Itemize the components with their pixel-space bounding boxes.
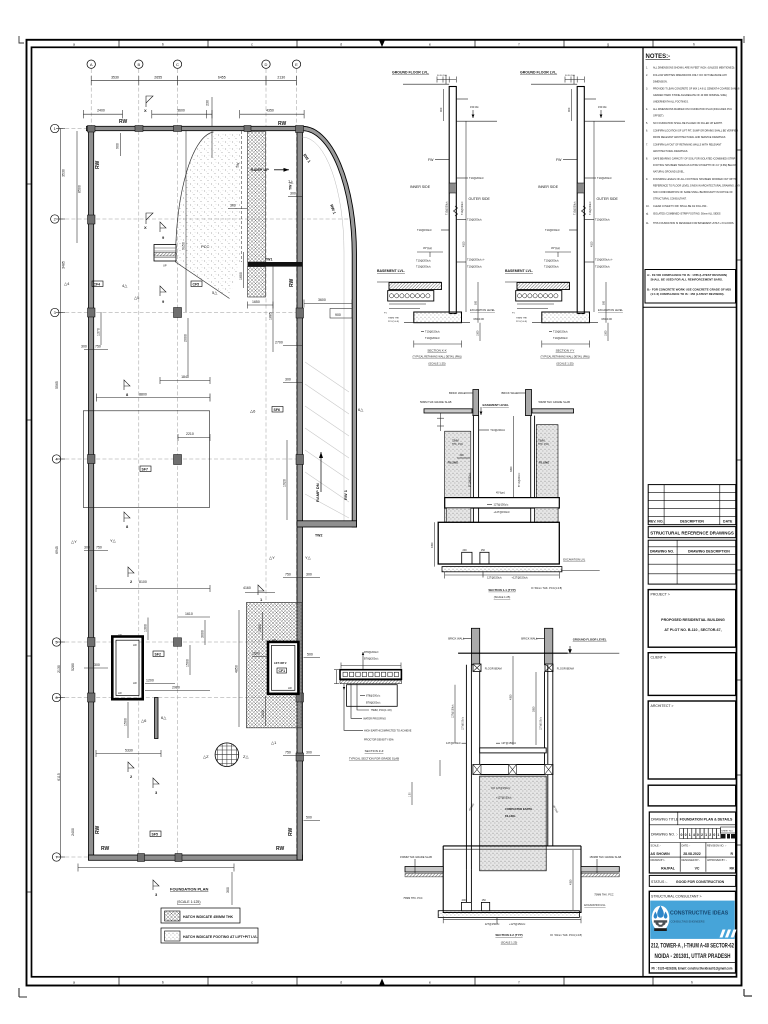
svg-text:4: 4 xyxy=(693,833,695,837)
svg-text:=8040.00: =8040.00 xyxy=(473,317,484,321)
svg-text:2.: 2. xyxy=(646,74,648,77)
wall continues to footing xyxy=(466,869,471,902)
svg-text:b: b xyxy=(162,43,164,47)
svg-text:SF7: SF7 xyxy=(142,467,148,471)
dim 1920 xyxy=(286,440,288,520)
svg-text:GROUND FLOOR LEVEL: GROUND FLOOR LEVEL xyxy=(573,638,607,642)
svg-text:STRUCTURAL CONSULTANT.: STRUCTURAL CONSULTANT. xyxy=(653,198,687,201)
dim 1370 xyxy=(100,312,102,345)
svg-text:2210: 2210 xyxy=(186,432,194,436)
svg-text:PROVIDE IT LEAN CONCRETE OF MI: PROVIDE IT LEAN CONCRETE OF MIX 1:4:8 (1… xyxy=(653,88,740,91)
svg-text:RAJPAL: RAJPAL xyxy=(661,867,676,871)
svg-text:DATE: DATE xyxy=(723,520,733,524)
revision table xyxy=(648,485,736,525)
svg-text:300: 300 xyxy=(94,663,100,667)
svg-text:1: 1 xyxy=(717,833,719,837)
svg-text:75MM: 75MM xyxy=(538,439,545,442)
bottom wall xyxy=(89,855,303,860)
svg-text:BASEMENT LVL.: BASEMENT LVL. xyxy=(377,269,405,273)
svg-text:3530: 3530 xyxy=(62,169,66,177)
svg-text:(SCALE 1:25): (SCALE 1:25) xyxy=(494,595,511,599)
svg-text:PCC(1:4:8): PCC(1:4:8) xyxy=(388,321,399,323)
retaining wall stem xyxy=(449,87,456,314)
svg-text:FROM RELEVANT ARCHITECTURAL AN: FROM RELEVANT ARCHITECTURAL AND SERVICE … xyxy=(653,136,726,139)
SF2 box xyxy=(153,651,164,657)
svg-text:FOUNDATION PLAN & DETAILS: FOUNDATION PLAN & DETAILS xyxy=(680,817,733,821)
svg-text:DESIGNED BY:-: DESIGNED BY:- xyxy=(682,859,701,862)
svg-text:50MM THK GRADE SLAB: 50MM THK GRADE SLAB xyxy=(420,400,452,404)
svg-text:△Y: △Y xyxy=(71,539,77,544)
svg-text:a: a xyxy=(73,981,75,985)
svg-text:150: 150 xyxy=(482,899,487,902)
svg-text:10.: 10. xyxy=(646,205,650,208)
svg-text:SECTION 2-2 (TYP): SECTION 2-2 (TYP) xyxy=(495,933,522,937)
svg-text:DRAWN BY:-: DRAWN BY:- xyxy=(651,859,666,862)
svg-text:CLEAR COVER TO R/F SHALL BE AS: CLEAR COVER TO R/F SHALL BE AS FOLLOW:- xyxy=(653,205,708,208)
slab rebar bar xyxy=(388,291,434,301)
svg-text:1200: 1200 xyxy=(261,710,265,718)
svg-text:LW: LW xyxy=(118,633,122,637)
svg-text:PROPOSED RESIDENTIAL BUILDING: PROPOSED RESIDENTIAL BUILDING xyxy=(661,618,725,622)
svg-text:B:- FOR CONCRETE WORK USE CONC: B:- FOR CONCRETE WORK USE CONCRETE GRADE… xyxy=(647,287,732,291)
svg-text:DRAWING NO.: DRAWING NO. xyxy=(650,550,674,554)
svg-text:HIGH EARTH/COMPACTED TO ACHIEV: HIGH EARTH/COMPACTED TO ACHIEVE xyxy=(364,729,412,732)
svg-text:6455: 6455 xyxy=(218,76,226,80)
dim 8500 xyxy=(76,131,78,243)
svg-text:7.: 7. xyxy=(646,144,648,147)
svg-text:RW: RW xyxy=(276,846,285,852)
svg-text:RW: RW xyxy=(288,827,294,836)
architect box xyxy=(648,701,736,779)
svg-text:6945: 6945 xyxy=(55,546,59,554)
svg-text:12T@150c/c: 12T@150c/c xyxy=(463,716,465,730)
svg-text:LW: LW xyxy=(133,643,137,647)
svg-text:6△: 6△ xyxy=(358,407,364,412)
top small dims left xyxy=(437,413,444,431)
grid circles top A-E xyxy=(87,60,301,68)
svg-text:RW: RW xyxy=(95,825,101,834)
svg-text:+12T@150c/c: +12T@150c/c xyxy=(496,797,512,800)
svg-text:3050: 3050 xyxy=(510,466,513,472)
svg-text:ALL DIMENSIONS MARKED ON FOUND: ALL DIMENSIONS MARKED ON FOUNDATION PLAN… xyxy=(653,108,732,111)
lift shaft box xyxy=(268,642,298,694)
svg-text:75MM THK: 75MM THK xyxy=(388,318,400,320)
svg-text:5280: 5280 xyxy=(71,663,75,671)
left small dims xyxy=(412,760,440,805)
CF4 CF5 boxes xyxy=(92,281,103,287)
svg-text:REFERENCE TO FLOOR LEVEL GIVEN: REFERENCE TO FLOOR LEVEL GIVEN IN ARCHIT… xyxy=(653,185,741,188)
wall columns xyxy=(88,126,304,862)
svg-text:1370: 1370 xyxy=(97,328,101,336)
svg-text:3.: 3. xyxy=(646,88,648,91)
svg-text:EXCAVATION LVL: EXCAVATION LVL xyxy=(584,903,606,907)
svg-text:28.08.2022: 28.08.2022 xyxy=(683,852,701,856)
svg-text:CONFIRM LAYOUT OF RETAINING WA: CONFIRM LAYOUT OF RETAINING WALLS WITH R… xyxy=(653,144,722,147)
joint block xyxy=(449,183,456,193)
svg-text:7△: 7△ xyxy=(288,179,294,184)
pit outline xyxy=(438,522,559,564)
center vertical dim xyxy=(535,672,537,745)
centering triangle top xyxy=(379,40,385,47)
dim 900 xyxy=(443,89,445,121)
floor beams xyxy=(473,664,481,672)
svg-text:150: 150 xyxy=(481,549,486,552)
svg-text:UP: UP xyxy=(163,264,167,268)
right vertical dim xyxy=(572,850,574,910)
svg-text:STRUCTURAL REFERENCE DRAWINGS: STRUCTURAL REFERENCE DRAWINGS xyxy=(650,531,734,536)
logo splash drops xyxy=(657,906,664,918)
corner mark top-left xyxy=(19,36,24,43)
svg-text:SF6: SF6 xyxy=(274,408,280,412)
svg-text:2000: 2000 xyxy=(184,334,188,342)
legend row 2 xyxy=(161,928,258,943)
logo ellipse xyxy=(652,906,670,931)
svg-text:TW1: TW1 xyxy=(265,258,272,262)
svg-text:300: 300 xyxy=(460,454,465,457)
svg-text:3600: 3600 xyxy=(318,298,326,302)
svg-text:900: 900 xyxy=(116,143,120,149)
svg-text:NO FOUNDATION SHALL BE PLACED: NO FOUNDATION SHALL BE PLACED ON FILLED … xyxy=(653,122,723,125)
left wall xyxy=(89,126,94,860)
right wall E-line xyxy=(297,126,303,860)
svg-text:T10@200c/c: T10@200c/c xyxy=(490,428,505,432)
svg-text:ARCHITECT >: ARCHITECT > xyxy=(651,704,674,708)
bottom stipple band xyxy=(438,911,579,918)
logo base bar xyxy=(654,928,667,931)
svg-text:1.: 1. xyxy=(646,67,648,70)
project box xyxy=(648,590,736,648)
flag 8 xyxy=(124,380,130,390)
svg-text:RAMP DN: RAMP DN xyxy=(315,483,320,502)
svg-text:(1:1:2) COMPLIANCE TO IS : 456: (1:1:2) COMPLIANCE TO IS : 456 (LATEST R… xyxy=(651,292,725,296)
svg-text:RW 1: RW 1 xyxy=(343,489,348,500)
svg-text:A: A xyxy=(90,62,93,67)
svg-text:T10@200c/c: T10@200c/c xyxy=(467,265,482,269)
svg-text:5330: 5330 xyxy=(125,748,133,752)
svg-text:h: h xyxy=(693,43,695,47)
compacted earth stipple xyxy=(480,776,547,871)
svg-text:150MM THK GRADE SLAB: 150MM THK GRADE SLAB xyxy=(589,855,621,859)
svg-text:GRADED HARD STONE AGGREGATE OF: GRADED HARD STONE AGGREGATE OF 40 MM NOM… xyxy=(653,94,727,97)
TW dashed line xyxy=(241,131,243,262)
svg-text:300: 300 xyxy=(290,192,296,196)
svg-text:1610: 1610 xyxy=(185,612,193,616)
grade slab detail xyxy=(334,651,412,761)
svg-text:g: g xyxy=(607,43,609,47)
svg-text:1500: 1500 xyxy=(477,330,480,336)
dim 3600 ramp xyxy=(304,300,352,308)
white slashes xyxy=(720,930,737,938)
TW1 thick bar xyxy=(248,262,303,267)
svg-text:SECTION 1-1 (TYP): SECTION 1-1 (TYP) xyxy=(488,588,515,592)
right wall below xyxy=(531,416,535,523)
svg-text:a).: a). xyxy=(646,213,649,216)
svg-text:1300: 1300 xyxy=(258,624,262,632)
right ground lines xyxy=(456,98,468,100)
svg-text:A:- FE 500 COMPLIANCE TO IS :: A:- FE 500 COMPLIANCE TO IS : 1786 (LATE… xyxy=(647,273,727,277)
svg-text:300: 300 xyxy=(226,887,230,893)
svg-text:FLOOR BEAM: FLOOR BEAM xyxy=(485,667,502,671)
svg-text:0: 0 xyxy=(713,833,715,837)
drawing description table xyxy=(648,540,736,584)
svg-text:1300: 1300 xyxy=(144,624,148,632)
flags 9 xyxy=(160,222,166,232)
svg-text:FOLLOW WRITTEN DIMENSIONS ONLY: FOLLOW WRITTEN DIMENSIONS ONLY. DO NOT M… xyxy=(653,74,727,77)
svg-text:REVISION NO. :-: REVISION NO. :- xyxy=(707,844,726,847)
svg-text:TYPICAL SECTION FOR GRADE SLAB: TYPICAL SECTION FOR GRADE SLAB xyxy=(349,757,399,761)
svg-text:150MM THK GRADE SLAB: 150MM THK GRADE SLAB xyxy=(400,855,432,859)
svg-text:50mm THK. PCC(1:4:8): 50mm THK. PCC(1:4:8) xyxy=(535,586,563,590)
svg-text:NOIDA - 201301, UTTAR PRADESH: NOIDA - 201301, UTTAR PRADESH xyxy=(655,953,731,960)
svg-text:6.: 6. xyxy=(646,130,648,133)
svg-text:CLIENT >: CLIENT > xyxy=(651,656,666,660)
bottom dim xyxy=(445,572,560,579)
ramp outer curved wall xyxy=(303,126,357,527)
svg-text:APPROVED BY :-: APPROVED BY :- xyxy=(707,859,727,862)
left wall pair xyxy=(466,665,479,869)
svg-text:12T@150c/c: 12T@150c/c xyxy=(541,716,543,730)
svg-text:CF5: CF5 xyxy=(193,282,200,286)
FOUNDATION PLAN group xyxy=(51,60,357,862)
beam band xyxy=(480,748,547,753)
svg-text:2: 2 xyxy=(709,833,711,837)
right wall pair xyxy=(545,665,553,846)
svg-text:1650: 1650 xyxy=(252,300,260,304)
svg-text:f: f xyxy=(519,43,520,47)
right grade slab band xyxy=(532,409,574,413)
svg-text:INNER SIDE: INNER SIDE xyxy=(410,185,431,189)
svg-text:8T10@200c/c: 8T10@200c/c xyxy=(470,472,472,487)
svg-text:X: X xyxy=(144,108,147,113)
grid circles left 1-7 xyxy=(51,124,61,861)
dim 2210 xyxy=(178,434,210,441)
dim 9150 vertical xyxy=(185,131,187,312)
svg-text:PROJECT >: PROJECT > xyxy=(651,592,670,596)
plan lower details xyxy=(78,603,320,944)
svg-text:GROUND FLOOR LVL.: GROUND FLOOR LVL. xyxy=(392,71,429,75)
top mini dims 50 50 100 xyxy=(437,77,456,83)
svg-text:TW2: TW2 xyxy=(315,534,322,538)
svg-text:T10@200c/c: T10@200c/c xyxy=(446,201,449,215)
dim 300 pcc xyxy=(228,208,248,210)
svg-text:EXCAVATION LVL: EXCAVATION LVL xyxy=(563,558,586,562)
svg-text:5△: 5△ xyxy=(212,290,218,295)
svg-text:RW: RW xyxy=(95,160,101,169)
svg-text:f: f xyxy=(519,981,520,985)
PCC stipple region xyxy=(175,132,241,298)
ramp bottom wall xyxy=(297,521,357,527)
svg-text:c: c xyxy=(251,43,253,47)
svg-text:RW: RW xyxy=(289,278,295,287)
svg-text:45°(typ): 45°(typ) xyxy=(423,246,432,250)
svg-text:75MM: 75MM xyxy=(452,439,459,442)
svg-text:1500: 1500 xyxy=(252,651,260,655)
svg-text:UNDERNEATH ALL FOOTINGS.: UNDERNEATH ALL FOOTINGS. xyxy=(653,101,689,104)
svg-text:750: 750 xyxy=(96,546,102,550)
svg-text:ALL DIMENSIONS SHOWN, ARE IN F: ALL DIMENSIONS SHOWN, ARE IN FEET INCH. … xyxy=(653,67,735,70)
svg-text:△6: △6 xyxy=(141,718,147,723)
svg-text:BASEMENT LEVEL: BASEMENT LEVEL xyxy=(483,403,510,407)
svg-text:12T@150c/c: 12T@150c/c xyxy=(485,922,500,926)
svg-text:4.: 4. xyxy=(646,108,648,111)
svg-text:RK: RK xyxy=(729,867,735,871)
big room rect xyxy=(83,394,210,508)
dims around lift xyxy=(239,610,320,727)
svg-text:300: 300 xyxy=(306,573,312,577)
right brick wall xyxy=(526,390,532,416)
svg-text:(TYPICAL RETAINING WALL DETAIL: (TYPICAL RETAINING WALL DETAIL (RW)) xyxy=(412,356,461,359)
svg-text:SCALE :-: SCALE :- xyxy=(651,844,662,847)
svg-text:CF4: CF4 xyxy=(94,282,101,286)
svg-text:RW: RW xyxy=(101,846,110,852)
left brick wall xyxy=(473,390,479,416)
svg-text:5565: 5565 xyxy=(55,381,59,389)
svg-text:8.: 8. xyxy=(646,158,648,161)
svg-text:B: B xyxy=(137,62,140,67)
slab bar with rebar squares xyxy=(340,670,401,680)
svg-text:d: d xyxy=(340,43,342,47)
svg-text:THK. PCC: THK. PCC xyxy=(452,443,463,446)
ramp inner faint arc xyxy=(303,137,345,521)
svg-text:SHALL BE USED FOR ALL REINFORC: SHALL BE USED FOR ALL REINFORCEMENT BARS… xyxy=(651,278,723,282)
dim 900 ramp box xyxy=(330,309,352,319)
svg-text:12T@150c/c: 12T@150c/c xyxy=(501,741,516,745)
hatch band upper (450 thk) xyxy=(248,132,266,263)
svg-text:2: 2 xyxy=(701,833,703,837)
svg-text:SECTION X-X: SECTION X-X xyxy=(427,349,446,353)
PCC diagonal boundary xyxy=(176,262,230,299)
top border grid letters xyxy=(73,43,695,47)
stair box upper xyxy=(154,245,176,268)
svg-text:(SCALE 1:25): (SCALE 1:25) xyxy=(501,941,518,945)
section Y-Y reuse xyxy=(505,71,625,348)
svg-text:4050: 4050 xyxy=(510,694,513,700)
svg-text:4050: 4050 xyxy=(431,542,434,548)
svg-text:FLOOR BEAM: FLOOR BEAM xyxy=(557,667,574,671)
structural consultant box xyxy=(649,891,736,973)
svg-text:12T@150c/c: 12T@150c/c xyxy=(487,576,502,580)
svg-text:OUTER SIDE: OUTER SIDE xyxy=(469,197,491,201)
svg-text:900: 900 xyxy=(439,107,443,112)
top dimension row 1 xyxy=(91,76,296,85)
svg-text:50MM THK GRADE SLAB: 50MM THK GRADE SLAB xyxy=(539,400,571,404)
left vertical dim xyxy=(434,522,436,566)
lower stipple strips xyxy=(447,508,471,522)
Z detail circle xyxy=(215,743,239,767)
svg-text:c: c xyxy=(251,981,253,985)
svg-text:9150: 9150 xyxy=(182,242,186,250)
corner mark bottom-right xyxy=(744,989,752,996)
thin hatch band under slab xyxy=(340,680,401,683)
svg-text:(SCALE 1:125): (SCALE 1:125) xyxy=(177,900,201,904)
svg-text:8800: 8800 xyxy=(139,392,147,396)
notes list xyxy=(646,67,741,226)
svg-text:200: 200 xyxy=(463,549,468,552)
right vertical dim xyxy=(465,121,467,312)
svg-text:PCC: PCC xyxy=(201,244,210,249)
svg-text:4850: 4850 xyxy=(235,665,239,673)
ramp chevron hatch xyxy=(305,362,349,518)
svg-text:LW: LW xyxy=(288,686,292,690)
right filling stipple xyxy=(536,425,558,523)
svg-text:FW: FW xyxy=(428,158,434,162)
svg-text:FILLING: FILLING xyxy=(448,460,458,464)
water stop xyxy=(454,206,458,216)
svg-text:4△: 4△ xyxy=(122,283,128,288)
svg-text:T10@200c/c: T10@200c/c xyxy=(425,336,440,340)
svg-text:FOUNDING LEVELS OF ALL FOOTING: FOUNDING LEVELS OF ALL FOOTINGS HAS BEEN… xyxy=(653,178,736,181)
svg-text:8T10@200c/c: 8T10@200c/c xyxy=(519,472,521,487)
svg-text:300: 300 xyxy=(230,204,236,208)
svg-text:BRICK WALL: BRICK WALL xyxy=(448,637,465,641)
slab band with X boxes xyxy=(473,765,553,775)
dim 300 right xyxy=(283,382,302,384)
svg-text:ISOLATED /COMBINED /STRIP FOOT: ISOLATED /COMBINED /STRIP FOOTING: 50mm … xyxy=(653,213,721,216)
svg-text:150 thk: 150 thk xyxy=(470,105,479,109)
svg-text:1885: 1885 xyxy=(269,312,273,320)
svg-text:D: D xyxy=(265,62,268,67)
svg-text:300: 300 xyxy=(285,378,291,382)
flag 1 + dim 4160 xyxy=(258,585,264,595)
svg-text:(SCALE 1:25): (SCALE 1:25) xyxy=(556,362,573,366)
svg-text:PROCTOR DENSITY 95%: PROCTOR DENSITY 95% xyxy=(364,739,394,742)
corner mark top-right xyxy=(743,36,745,43)
flag 2 + dim 8100 xyxy=(128,567,134,577)
svg-text:X: X xyxy=(144,225,147,230)
pit boxes xyxy=(461,902,471,910)
svg-text:12T@150c/c: 12T@150c/c xyxy=(446,741,461,745)
structural reference drawings banner xyxy=(648,527,736,538)
side ticks xyxy=(27,150,742,892)
svg-text:CONFIRM LOCATION OF LIFT PIT,: CONFIRM LOCATION OF LIFT PIT, SUMP OR DR… xyxy=(653,130,738,133)
svg-text:(SCALE 1:25): (SCALE 1:25) xyxy=(428,362,445,366)
svg-text:4350: 4350 xyxy=(266,109,274,113)
top dim line xyxy=(341,663,401,669)
svg-text:LW: LW xyxy=(133,681,137,685)
dim 1650 xyxy=(248,302,274,309)
svg-text:STATUS :-: STATUS :- xyxy=(651,880,668,884)
flag 8 lower xyxy=(124,512,130,522)
left filling stipple xyxy=(445,431,471,522)
dim 2000 vertical xyxy=(187,318,189,376)
svg-text:ARCHITECTURAL DRAWINGS.: ARCHITECTURAL DRAWINGS. xyxy=(653,150,688,153)
svg-text:SHEET NO.: SHEET NO. xyxy=(721,831,733,833)
right brick wall xyxy=(545,628,553,665)
svg-text:4050: 4050 xyxy=(570,879,573,885)
svg-text:STRUCTURAL CONSULTANT >: STRUCTURAL CONSULTANT > xyxy=(651,895,702,899)
dim 2700 xyxy=(283,345,302,347)
svg-text:REV. NO.: REV. NO. xyxy=(648,520,663,524)
section 2-2 detail xyxy=(400,628,621,944)
svg-text:1500: 1500 xyxy=(186,659,190,667)
svg-text:750: 750 xyxy=(285,751,291,755)
svg-text:LW: LW xyxy=(118,691,122,695)
svg-text:6△: 6△ xyxy=(161,715,167,720)
svg-text:WATER PROOFING: WATER PROOFING xyxy=(363,717,386,720)
svg-text:Ph : 0120-4326286, Email: cons: Ph : 0120-4326286, Email: constructiveid… xyxy=(652,967,733,971)
flag 3 caption xyxy=(153,880,159,890)
svg-text:(TYPICAL RETAINING WALL DETAIL: (TYPICAL RETAINING WALL DETAIL (RW)) xyxy=(540,356,589,359)
svg-text:RW: RW xyxy=(119,119,128,125)
svg-text:CONSTRUCTIVE IDEAS: CONSTRUCTIVE IDEAS xyxy=(670,911,729,917)
dim 1840 xyxy=(160,377,210,384)
lift hatch region xyxy=(247,603,303,728)
svg-text:12T@150c/c: 12T@150c/c xyxy=(494,502,509,506)
svg-text:0: 0 xyxy=(685,833,687,837)
status row xyxy=(649,875,735,886)
footing xyxy=(414,312,462,323)
svg-text:2400: 2400 xyxy=(97,109,105,113)
